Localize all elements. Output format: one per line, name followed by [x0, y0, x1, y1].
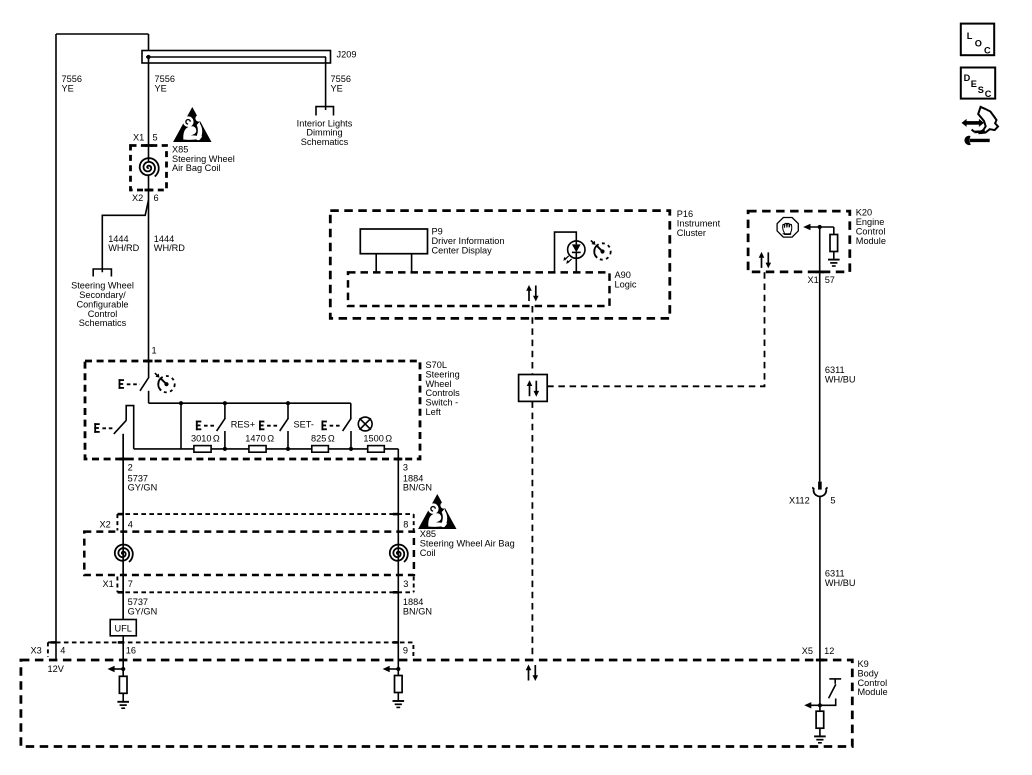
switch S4 SET- upper wire: [287, 403, 289, 418]
serial data dashed line junction box to K20: [547, 272, 764, 386]
wire to resistor right: [397, 669, 399, 676]
display P9 legs: [376, 254, 411, 273]
svg-text:L: L: [967, 31, 973, 41]
svg-text:2: 2: [128, 463, 133, 473]
arrow left (K9 input right): [383, 666, 399, 672]
switch S5 dashes: [330, 425, 342, 427]
svg-text:X2: X2: [132, 193, 143, 203]
serial data dashed line from A90 down: [531, 306, 533, 375]
warning icon airbag (upper): [173, 107, 211, 142]
svg-text:C: C: [984, 46, 991, 56]
resistor internal K20: [830, 235, 838, 252]
off-page connector bracket (steering wheel secondary): [93, 269, 111, 277]
switch S4 lower wire: [287, 431, 289, 449]
LED emission arrows: [563, 256, 571, 264]
serial data double arrow in K20: [759, 252, 771, 269]
switch S2 blade: [114, 420, 127, 434]
component box X85 lower dashed: [84, 532, 414, 575]
node junction on J209 at left: [146, 55, 150, 59]
wire drop to J209 splice: [148, 34, 150, 57]
svg-text:O: O: [975, 38, 982, 48]
switch S2 dashes: [102, 427, 113, 429]
double arrow in junction box: [527, 380, 539, 397]
gauge icon next to S1: [155, 373, 175, 392]
switch S1 blade: [140, 377, 149, 391]
svg-text:5: 5: [830, 496, 835, 506]
svg-text:1470: 1470: [245, 434, 265, 444]
ground K9 right: [393, 701, 405, 707]
pin tick K9 X5-12: [816, 659, 824, 662]
LED indicator anode hook: [555, 232, 577, 272]
switch in K9: output L wire: [820, 699, 836, 706]
junction dots on bottom bus: [223, 447, 227, 451]
serial data double arrow in A90: [526, 285, 538, 302]
wire resistor to ground K9 bottom right: [819, 728, 821, 735]
switch S5 lower wire: [350, 431, 352, 449]
wire pin4 to coil: [122, 434, 124, 620]
svg-text:6: 6: [154, 193, 159, 203]
svg-text:9: 9: [403, 645, 408, 655]
pin tick pin 2: [119, 458, 127, 461]
svg-text:3010: 3010: [191, 434, 211, 444]
pin tick X2-8: [393, 513, 399, 516]
coil spiral lower right: [390, 545, 408, 562]
switch S1 E symbol: [119, 379, 124, 389]
switch S4 E symbol: [259, 421, 264, 431]
component box K9 dashed: [21, 660, 852, 747]
pin tick X1-7: [118, 591, 124, 594]
wire to resistor K9 bottom right: [819, 705, 821, 711]
switch S1 dashes: [127, 383, 140, 385]
switch S3 blade: [217, 418, 226, 431]
wire to resistor left: [122, 669, 124, 676]
connector band X1 bottom dashed line: [117, 591, 413, 593]
switch S3 RES+ upper wire: [224, 403, 226, 418]
wire X112 down to K9 X5-12: [819, 497, 821, 706]
serial data double arrow in K9: [526, 665, 538, 682]
wire branch diagonal to steering wheel secondary: [102, 200, 148, 272]
junction dot in K20: [818, 225, 822, 229]
svg-text:16: 16: [126, 645, 136, 655]
display P9 rectangle: [360, 229, 427, 254]
component box P16 dashed: [330, 211, 670, 319]
serial data dashed line junction box down to K9: [531, 401, 533, 660]
pin tick X3-16: [118, 641, 124, 644]
wire X85 coil to pin 6: [148, 176, 150, 200]
svg-text:RES+: RES+: [231, 420, 255, 430]
pin tick X3-4: [51, 641, 57, 644]
icon diagnostic arrow-wrench: [962, 107, 999, 145]
svg-text:Steering WheelSecondary/Config: Steering WheelSecondary/ConfigurableCont…: [71, 281, 134, 329]
svg-text:Ω: Ω: [213, 434, 220, 444]
connector band X1 right edge: [413, 577, 415, 593]
resistor internal K9 bottom right: [816, 711, 824, 728]
junction dot K9 right: [818, 703, 822, 707]
svg-text:825: 825: [311, 434, 326, 444]
ground K20: [828, 260, 840, 266]
svg-text:X1: X1: [808, 275, 819, 285]
arrow left (K9 input left): [108, 666, 124, 672]
connector band X2 top dashed line: [117, 513, 413, 515]
svg-text:X1: X1: [103, 579, 114, 589]
lamp symbol (illumination): [358, 417, 372, 431]
resistor 1500 ohm: [368, 446, 385, 453]
svg-text:J209: J209: [337, 50, 357, 60]
svg-text:X3: X3: [31, 645, 42, 655]
switch S5 top contact from bus corner: [350, 403, 352, 418]
coil spiral X85 upper: [140, 158, 159, 176]
connector band X2 right edge: [413, 514, 415, 530]
serial data junction box: [519, 375, 548, 402]
pin 1 tick and label: [145, 360, 153, 363]
wire resistor to ground K20: [833, 252, 835, 259]
switch S3 E symbol: [196, 421, 201, 431]
svg-text:X5: X5: [802, 646, 813, 656]
splice pack J209 bus bar: [142, 51, 331, 64]
pin tick X85 pin 6: [145, 189, 153, 192]
svg-text:C: C: [985, 89, 992, 99]
svg-text:SET-: SET-: [294, 420, 314, 430]
wire 7556 YE left vertical from top: [55, 34, 57, 660]
connector band X1 left edge: [116, 577, 118, 593]
switch in K9: blade: [829, 684, 836, 698]
switch S2 E symbol: [94, 423, 99, 433]
coil spiral lower left: [115, 545, 133, 562]
wire pin8 through coil down: [397, 514, 399, 669]
switch S4 dashes: [267, 425, 279, 427]
svg-text:X112: X112: [789, 496, 810, 506]
svg-text:4: 4: [60, 645, 65, 655]
svg-text:D: D: [964, 73, 971, 83]
pin tick pin 3: [394, 458, 402, 461]
pin tick X85 pin 5: [145, 144, 153, 147]
icon box LOC: [961, 24, 994, 56]
svg-text:Ω: Ω: [328, 434, 335, 444]
svg-text:12V: 12V: [48, 664, 65, 674]
switch in K9: top contact T bar: [829, 679, 841, 684]
vertical link top bus to bottom bus: [180, 403, 182, 449]
svg-text:X1: X1: [133, 133, 144, 143]
LED diode triangle and bar: [572, 241, 581, 258]
svg-text:Ω: Ω: [267, 434, 274, 444]
connector band X3 right edge: [412, 645, 414, 657]
octagon hand icon (driver control): [777, 218, 798, 238]
resistor internal K9 right: [395, 676, 403, 693]
wire dot to resistor K20: [833, 227, 835, 235]
resistor 825 ohm: [312, 446, 329, 453]
svg-text:E: E: [971, 79, 977, 89]
junction dot right branch in K9: [396, 667, 400, 671]
connector X85 dashed component box (upper): [131, 146, 167, 191]
svg-text:12: 12: [824, 646, 834, 656]
icon box DESC: [961, 68, 995, 100]
LED indicator circle: [568, 241, 585, 258]
arrow left K9 bottom right: [804, 702, 820, 708]
warning icon airbag (lower): [418, 494, 456, 529]
svg-text:1: 1: [152, 346, 157, 356]
svg-text:UFL: UFL: [115, 623, 132, 633]
junction dot left branch in K9: [121, 667, 125, 671]
switch S5 E symbol: [322, 421, 327, 431]
component box K20 dashed: [748, 211, 850, 272]
connector band X3 dashed line: [48, 641, 414, 643]
svg-text:S: S: [978, 85, 984, 95]
inline connector X112 male terminal: [818, 482, 822, 490]
switch S2 top contact bracket: [126, 406, 134, 449]
junction dots on top bus: [179, 401, 183, 405]
wire resistor to ground right: [397, 693, 399, 701]
wire J209 to interior lights off-page: [325, 57, 327, 110]
resistor 3010 ohm: [194, 446, 211, 453]
LED cathode wire to A90: [575, 258, 577, 272]
inline component UFL box: [110, 620, 136, 636]
svg-text:7: 7: [128, 579, 133, 589]
wire top horizontal feed: [56, 33, 149, 35]
switch S5 blade: [343, 418, 352, 431]
switch S4 blade: [280, 418, 289, 431]
switch S3 lower wire: [224, 431, 226, 449]
off-page connector bracket (interior lights): [316, 107, 334, 116]
pin tick K20 X1-57: [816, 270, 824, 273]
inline connector X112 female cup: [813, 487, 827, 496]
wire bottom bus to pin 3: [397, 449, 399, 514]
ground K9 left: [117, 702, 129, 708]
svg-text:8: 8: [403, 519, 408, 529]
arrow into octagon: [803, 224, 834, 230]
resistor 1470 ohm: [249, 446, 266, 453]
top bus inside S70L: [149, 402, 351, 404]
svg-text:4: 4: [128, 519, 133, 529]
svg-text:3: 3: [403, 463, 408, 473]
wire 7556 YE down to X85 coil pin 5: [148, 57, 150, 161]
svg-text:57: 57: [825, 275, 835, 285]
component box S70L dashed: [85, 361, 420, 459]
pin tick X2-4: [118, 513, 124, 516]
connector band X2 left edge: [116, 514, 118, 530]
ground K9 bottom right: [814, 736, 826, 742]
wire S1 lower to top bus: [148, 391, 150, 403]
wire 1444 WH/RD main vertical to S70L: [148, 200, 150, 362]
pin tick X1-3: [393, 591, 399, 594]
gauge icon in cluster: [591, 240, 611, 259]
svg-text:3: 3: [403, 579, 408, 589]
switch S1 cruise on/off: upper wire: [148, 361, 150, 377]
wire switch S2 output down (pin 2): [122, 434, 124, 620]
connector band X3 left edge: [47, 642, 49, 657]
wire UFL to K9: [122, 636, 124, 669]
svg-text:Ω: Ω: [385, 434, 392, 444]
bottom bus inside S70L: [134, 448, 399, 450]
svg-text:X2: X2: [100, 519, 111, 529]
logic box A90 dashed: [348, 272, 610, 306]
svg-text:5: 5: [153, 133, 158, 143]
resistor internal K9 left: [119, 676, 127, 693]
switch S3 dashes: [204, 425, 216, 427]
wire K20 pin 57 down: [819, 227, 821, 482]
wire resistor to ground left: [122, 693, 124, 701]
svg-text:1500: 1500: [363, 434, 383, 444]
pin tick X3-9: [393, 641, 399, 644]
